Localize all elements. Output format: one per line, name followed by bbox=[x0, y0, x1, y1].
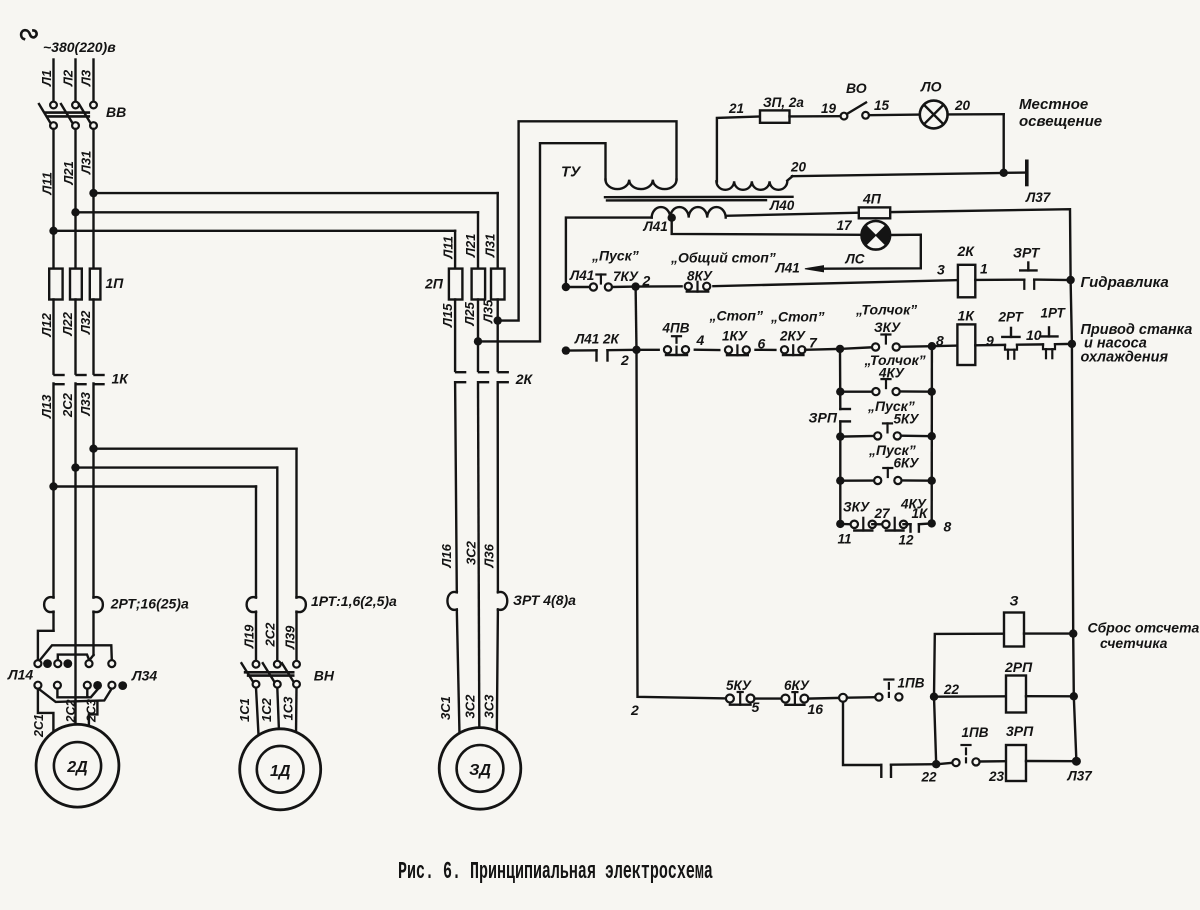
svg-text:Л32: Л32 bbox=[78, 310, 93, 335]
svg-text:Л33: Л33 bbox=[78, 391, 93, 416]
svg-text:1К: 1К bbox=[112, 371, 130, 387]
svg-text:ЗРТ 4(8)а: ЗРТ 4(8)а bbox=[513, 592, 576, 608]
svg-text:5КУ: 5КУ bbox=[726, 678, 752, 693]
svg-text:ВО: ВО bbox=[846, 80, 867, 96]
svg-text:ВН: ВН bbox=[314, 668, 335, 684]
svg-text:11: 11 bbox=[838, 532, 852, 547]
svg-text:20: 20 bbox=[790, 160, 807, 175]
svg-text:1: 1 bbox=[980, 261, 988, 277]
svg-text:ЛС: ЛС bbox=[845, 252, 865, 267]
svg-text:Л31: Л31 bbox=[483, 234, 498, 258]
svg-text:Л19: Л19 bbox=[242, 624, 257, 649]
svg-text:2Д: 2Д bbox=[66, 759, 88, 776]
svg-text:ВВ: ВВ bbox=[106, 104, 126, 120]
svg-text:Л1: Л1 bbox=[39, 70, 54, 87]
svg-text:освещение: освещение bbox=[1019, 113, 1102, 130]
svg-text:3С3: 3С3 bbox=[482, 694, 497, 719]
svg-text:Л37: Л37 bbox=[1025, 190, 1052, 205]
svg-text:8КУ: 8КУ bbox=[687, 269, 713, 284]
svg-text:Л41: Л41 bbox=[643, 219, 668, 234]
svg-text:6КУ: 6КУ bbox=[784, 678, 810, 693]
svg-text:1Д: 1Д bbox=[270, 763, 291, 780]
svg-text:ЗКУ: ЗКУ bbox=[843, 500, 870, 515]
svg-text:ЗКУ: ЗКУ bbox=[874, 320, 901, 335]
svg-text:Сброс отсчета: Сброс отсчета bbox=[1088, 620, 1200, 636]
svg-text:„Пуск”: „Пуск” bbox=[591, 248, 639, 264]
svg-text:1КУ: 1КУ bbox=[722, 329, 748, 344]
svg-text:1РТ:1,6(2,5)а: 1РТ:1,6(2,5)а bbox=[311, 593, 397, 609]
svg-text:Л22: Л22 bbox=[60, 311, 75, 336]
svg-text:ЗРП: ЗРП bbox=[809, 410, 838, 426]
svg-text:ЗД: ЗД bbox=[469, 762, 491, 779]
svg-text:Л37: Л37 bbox=[1067, 769, 1094, 784]
svg-text:ЗРТ: ЗРТ bbox=[1013, 245, 1041, 261]
svg-text:27: 27 bbox=[874, 506, 892, 521]
svg-text:Л31: Л31 bbox=[79, 151, 94, 175]
svg-text:16: 16 bbox=[808, 701, 824, 717]
svg-text:Л21: Л21 bbox=[61, 161, 76, 185]
svg-text:Л25: Л25 bbox=[462, 301, 477, 326]
svg-text:23: 23 bbox=[988, 769, 1005, 784]
svg-text:~380(220)в: ~380(220)в bbox=[43, 39, 116, 55]
svg-text:1ПВ: 1ПВ bbox=[898, 676, 925, 691]
svg-text:охлаждения: охлаждения bbox=[1081, 350, 1169, 366]
svg-text:„Толчок”: „Толчок” bbox=[855, 302, 917, 318]
svg-text:6КУ: 6КУ bbox=[894, 456, 920, 471]
svg-text:2К: 2К bbox=[957, 243, 976, 259]
svg-text:Рис. 6. Принципиальная электро: Рис. 6. Принципиальная электросхема bbox=[398, 859, 713, 887]
svg-text:ТУ: ТУ bbox=[561, 164, 582, 181]
svg-text:4КУ: 4КУ bbox=[878, 366, 905, 381]
svg-text:8: 8 bbox=[944, 519, 952, 535]
svg-text:1К: 1К bbox=[912, 506, 930, 521]
svg-text:Л36: Л36 bbox=[482, 543, 497, 568]
svg-text:3РП: 3РП bbox=[1006, 723, 1034, 739]
svg-text:1П: 1П bbox=[106, 275, 125, 291]
svg-text:Л11: Л11 bbox=[40, 172, 55, 195]
svg-text:22: 22 bbox=[943, 682, 960, 697]
svg-text:Л13: Л13 bbox=[39, 394, 54, 419]
svg-text:10: 10 bbox=[1026, 327, 1042, 343]
svg-text:2КУ: 2КУ bbox=[779, 329, 806, 344]
svg-text:Л41: Л41 bbox=[569, 268, 594, 283]
svg-text:7КУ: 7КУ bbox=[613, 269, 639, 284]
svg-text:Местное: Местное bbox=[1019, 96, 1088, 113]
svg-text:3С2: 3С2 bbox=[463, 694, 478, 719]
svg-text:ЛО: ЛО bbox=[920, 79, 942, 95]
svg-text:2С2: 2С2 bbox=[64, 700, 78, 724]
svg-text:3: 3 bbox=[937, 262, 945, 278]
svg-text:7: 7 bbox=[809, 335, 818, 351]
svg-text:4: 4 bbox=[696, 332, 705, 348]
svg-text:3С1: 3С1 bbox=[438, 696, 453, 720]
svg-text:З: З bbox=[1010, 593, 1019, 609]
svg-text:1РТ: 1РТ bbox=[1041, 306, 1067, 321]
svg-text:2С2: 2С2 bbox=[263, 622, 278, 648]
svg-text:Л41: Л41 bbox=[574, 332, 599, 347]
svg-text:22: 22 bbox=[921, 770, 938, 785]
svg-text:20: 20 bbox=[954, 98, 971, 113]
svg-text:Л14: Л14 bbox=[7, 667, 33, 683]
svg-text:17: 17 bbox=[837, 218, 854, 233]
svg-text:„Общий стоп”: „Общий стоп” bbox=[670, 250, 776, 266]
svg-text:2РТ: 2РТ bbox=[998, 310, 1025, 325]
svg-text:2П: 2П bbox=[424, 276, 444, 292]
svg-text:ЗП, 2а: ЗП, 2а bbox=[763, 95, 804, 110]
svg-text:2РП: 2РП bbox=[1004, 659, 1033, 675]
svg-text:1ПВ: 1ПВ bbox=[962, 725, 989, 740]
svg-text:„Стоп”: „Стоп” bbox=[709, 308, 763, 324]
svg-text:Л16: Л16 bbox=[439, 543, 454, 568]
svg-text:2: 2 bbox=[620, 352, 629, 368]
svg-text:4ПВ: 4ПВ bbox=[662, 321, 690, 336]
svg-text:Гидравлика: Гидравлика bbox=[1081, 274, 1169, 291]
svg-text:2С1: 2С1 bbox=[32, 714, 46, 738]
svg-text:5: 5 bbox=[752, 699, 760, 715]
svg-text:Л12: Л12 bbox=[39, 312, 54, 337]
svg-text:Л40: Л40 bbox=[769, 198, 795, 213]
svg-text:12: 12 bbox=[899, 533, 915, 548]
svg-text:4П: 4П bbox=[862, 191, 882, 207]
svg-text:1С3: 1С3 bbox=[281, 696, 296, 721]
svg-text:Л35: Л35 bbox=[481, 299, 496, 324]
svg-text:Л39: Л39 bbox=[283, 625, 298, 650]
svg-text:3С2: 3С2 bbox=[464, 540, 479, 565]
svg-text:1С2: 1С2 bbox=[259, 697, 274, 722]
svg-text:2РТ;16(25)а: 2РТ;16(25)а bbox=[110, 596, 189, 612]
svg-text:15: 15 bbox=[874, 98, 890, 113]
svg-text:2: 2 bbox=[630, 702, 639, 718]
svg-text:2К: 2К bbox=[515, 371, 534, 387]
svg-text:Л34: Л34 bbox=[131, 668, 157, 684]
svg-text:Л41: Л41 bbox=[775, 261, 800, 276]
svg-text:Л21: Л21 bbox=[463, 234, 478, 258]
svg-text:Л3: Л3 bbox=[79, 69, 94, 87]
svg-text:2С3: 2С3 bbox=[85, 699, 99, 723]
svg-text:Л15: Л15 bbox=[440, 303, 455, 328]
svg-text:19: 19 bbox=[821, 101, 837, 116]
svg-text:Л2: Л2 bbox=[61, 69, 76, 87]
svg-text:1С1: 1С1 bbox=[237, 698, 252, 722]
svg-text:счетчика: счетчика bbox=[1100, 635, 1168, 651]
svg-text:„Стоп”: „Стоп” bbox=[770, 309, 824, 325]
svg-text:Л11: Л11 bbox=[441, 236, 456, 259]
svg-text:21: 21 bbox=[728, 101, 744, 116]
svg-text:1К: 1К bbox=[958, 308, 976, 324]
svg-text:2К: 2К bbox=[602, 332, 621, 347]
svg-text:5КУ: 5КУ bbox=[894, 412, 920, 427]
svg-text:2С2: 2С2 bbox=[60, 392, 75, 418]
